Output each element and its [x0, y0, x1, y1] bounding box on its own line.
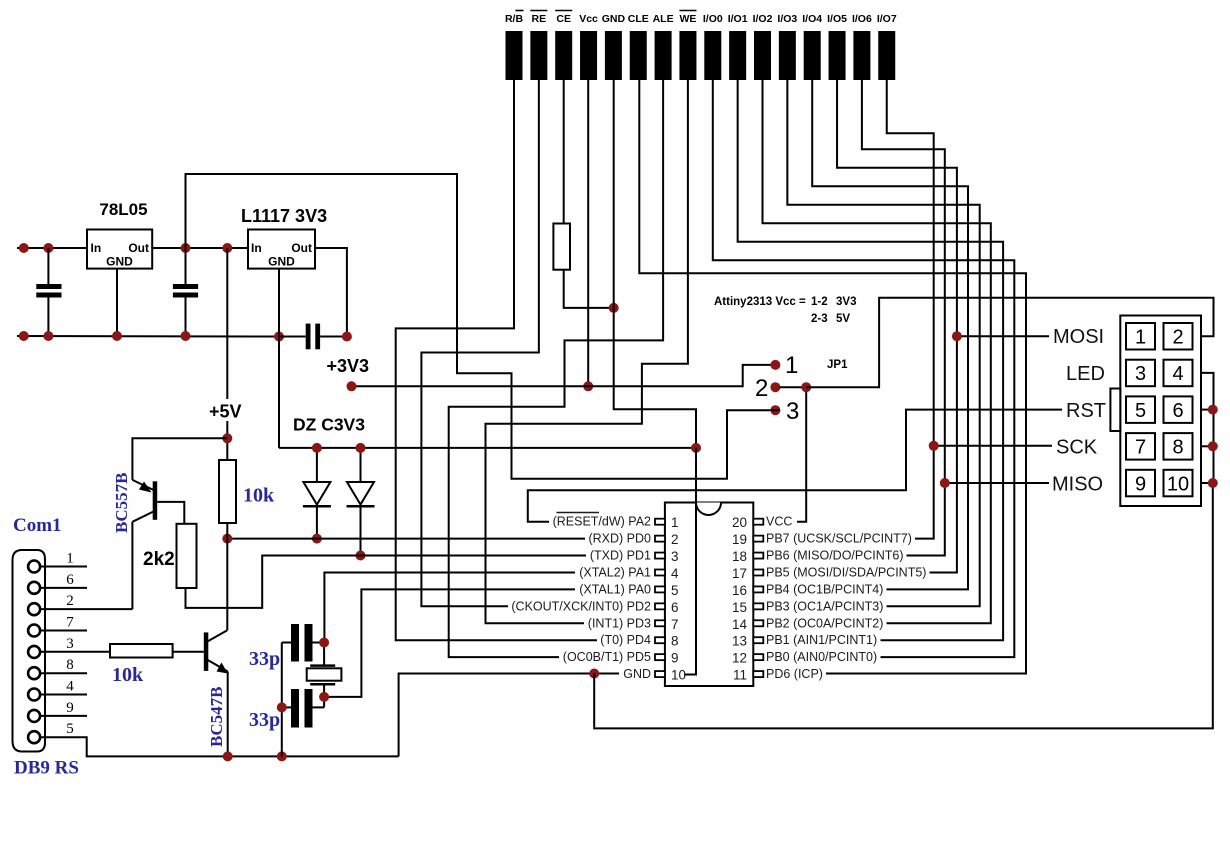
- svg-text:GND: GND: [602, 13, 626, 25]
- resistor R5 10k serial: [110, 644, 173, 658]
- junction dot rail crystal: [277, 751, 287, 761]
- svg-text:13: 13: [732, 634, 747, 649]
- svg-text:16: 16: [732, 583, 747, 598]
- svg-text:5: 5: [1135, 400, 1146, 422]
- svg-text:JP1: JP1: [827, 359, 848, 371]
- svg-text:GND: GND: [106, 255, 133, 269]
- DB9 pin 4 hole: [28, 689, 40, 701]
- svg-text:I/O6: I/O6: [852, 13, 872, 25]
- svg-text:PB3 (OC1A/PCINT3): PB3 (OC1A/PCINT3): [766, 599, 883, 613]
- svg-text:7: 7: [66, 615, 74, 631]
- ISP header cell 10: [1164, 470, 1193, 497]
- svg-text:2-3: 2-3: [811, 313, 828, 325]
- wire WE to PD3: [486, 80, 688, 623]
- svg-text:2: 2: [66, 593, 74, 609]
- svg-text:(XTAL2) PA1: (XTAL2) PA1: [579, 565, 651, 579]
- svg-text:In: In: [91, 241, 102, 255]
- resistor R3 2k2: [177, 524, 197, 588]
- svg-text:I/O3: I/O3: [777, 13, 797, 25]
- svg-text:Out: Out: [291, 241, 312, 255]
- IC pin 20 stub and label: [732, 515, 792, 531]
- wire rail to capacitor C3: [279, 336, 306, 338]
- junction dot rail C2: [181, 331, 191, 341]
- junction dot RXD 10k: [222, 534, 232, 544]
- connector pin I/O5: [827, 13, 847, 80]
- transistor Q2 BC547B: [204, 539, 228, 757]
- svg-text:PB0 (AIN0/PCINT0): PB0 (AIN0/PCINT0): [766, 650, 877, 664]
- svg-text:I/O4: I/O4: [802, 13, 822, 25]
- svg-text:6: 6: [66, 572, 74, 588]
- svg-text:I/O2: I/O2: [753, 13, 773, 25]
- wire L1117 Out to +3V3 node: [315, 248, 347, 337]
- junction dot D1 top: [312, 443, 322, 453]
- svg-text:1: 1: [785, 352, 798, 379]
- wire SCK row: [934, 445, 1052, 447]
- IC pin 4 stub and label: [579, 565, 679, 581]
- svg-text:9: 9: [1135, 473, 1146, 495]
- DB9 pin 7 stub: [40, 630, 87, 632]
- svg-text:33p: 33p: [249, 648, 280, 670]
- wire CLE to PD6: [639, 80, 1026, 674]
- JP1 pin3 dot: [770, 405, 780, 415]
- DB9 pin 8 stub: [40, 672, 87, 674]
- svg-text:14: 14: [732, 617, 748, 632]
- DB9 pin 4 stub: [40, 694, 87, 696]
- junction dot MOSI: [952, 331, 962, 341]
- svg-text:4: 4: [1172, 363, 1183, 385]
- junction dot +3V3 feed: [347, 381, 357, 391]
- svg-text:7: 7: [671, 617, 679, 632]
- svg-text:PB1 (AIN1/PCINT1): PB1 (AIN1/PCINT1): [766, 633, 877, 647]
- junction dot SCK: [929, 441, 939, 451]
- ISP header cell 1: [1126, 323, 1155, 350]
- svg-text:I/O0: I/O0: [703, 13, 723, 25]
- wire ground bus horizontal: [279, 447, 696, 449]
- connector JP2 ISP header outer: [1120, 316, 1201, 507]
- IC pin 3 stub and label: [590, 549, 679, 565]
- svg-text:5: 5: [66, 721, 74, 737]
- svg-text:Attiny2313 Vcc =: Attiny2313 Vcc =: [714, 296, 806, 308]
- wire VCC to ISP header pin2: [806, 298, 1213, 387]
- junction dot 5V node A: [181, 243, 191, 253]
- wire I/O2 to PB2: [763, 80, 991, 623]
- svg-text:2: 2: [755, 375, 768, 402]
- wire DB9 pin5 to ground rail: [40, 737, 399, 756]
- DB9 pin 6 stub: [40, 587, 87, 589]
- capacitor C4 33p top: [282, 624, 324, 662]
- DB9 pin 1 hole: [28, 561, 40, 573]
- junction dot MISO: [940, 478, 950, 488]
- svg-text:8: 8: [671, 634, 679, 649]
- svg-text:3: 3: [786, 398, 799, 425]
- junction dot rail L1117 GND: [274, 332, 284, 342]
- svg-text:RE: RE: [532, 13, 547, 25]
- svg-text:Vcc: Vcc: [579, 13, 598, 25]
- svg-text:MOSI: MOSI: [1053, 326, 1104, 348]
- junction dot input cap C1: [43, 243, 53, 253]
- regulator U3 L1117 3V3: [248, 230, 315, 269]
- svg-text:+3V3: +3V3: [327, 356, 370, 376]
- regulator U2 78L05: [87, 230, 152, 269]
- wire header pin10: [1201, 482, 1214, 484]
- IC pin 13 stub and label: [732, 633, 877, 649]
- wire GND bar to IC ground node: [614, 80, 696, 448]
- svg-text:PB2 (OC0A/PCINT2): PB2 (OC0A/PCINT2): [766, 616, 883, 630]
- svg-text:I/O5: I/O5: [827, 13, 847, 25]
- svg-text:LED: LED: [1066, 363, 1105, 385]
- zener diode D1 C3V3: [303, 448, 331, 539]
- junction dot ground-IC 4way: [691, 443, 701, 453]
- wire header pin6: [1201, 409, 1214, 411]
- connector pin I/O1: [728, 13, 748, 80]
- connector pin I/O7: [877, 13, 897, 80]
- wire I/O3 to PB3: [787, 80, 979, 606]
- DB9 pin 1 stub: [40, 566, 87, 568]
- svg-text:1: 1: [671, 515, 679, 530]
- svg-text:PB6 (MISO/DO/PCINT6): PB6 (MISO/DO/PCINT6): [766, 549, 904, 563]
- wire XTAL2 row: [324, 573, 575, 643]
- svg-text:CLE: CLE: [628, 13, 649, 25]
- wire I/O7 to PB7: [887, 80, 934, 539]
- IC pin 16 stub and label: [732, 582, 883, 598]
- connector pin R/B: [505, 11, 524, 81]
- junction dot input left: [19, 243, 29, 253]
- svg-text:3: 3: [671, 549, 679, 564]
- connector pin Vcc: [579, 13, 598, 80]
- svg-text:4: 4: [671, 566, 679, 581]
- DB9 pin 7 hole: [28, 625, 40, 637]
- svg-text:2k2: 2k2: [143, 549, 175, 570]
- IC pin 19 stub and label: [732, 532, 912, 548]
- junction dot 5V node B: [222, 243, 232, 253]
- wire +5V branch down 2: [226, 421, 228, 438]
- connector pin I/O4: [802, 13, 822, 80]
- IC pin 5 stub and label: [579, 582, 678, 598]
- junction dot XTAL2 node: [319, 638, 329, 648]
- svg-text:(RXD) PD0: (RXD) PD0: [588, 532, 651, 546]
- svg-text:1-2: 1-2: [811, 296, 828, 308]
- svg-text:(CKOUT/XCK/INT0) PD2: (CKOUT/XCK/INT0) PD2: [511, 599, 651, 613]
- IC pin 11 stub and label: [733, 667, 823, 683]
- svg-text:BC547B: BC547B: [207, 687, 226, 747]
- svg-text:17: 17: [732, 566, 747, 581]
- svg-text:10k: 10k: [243, 485, 275, 507]
- wire Vcc bar to +3V3 net: [587, 80, 589, 386]
- junction dot rail left end: [19, 331, 29, 341]
- wire header pin4 to ground bus: [1201, 373, 1214, 483]
- wire L1117 GND down to ground bus: [278, 269, 280, 448]
- svg-text:MISO: MISO: [1052, 474, 1103, 496]
- wire RESET to RST: [528, 410, 1062, 522]
- wire TXD row to 2k2: [186, 556, 587, 608]
- svg-text:2: 2: [1172, 327, 1183, 349]
- wire I/O1 to PB1: [738, 80, 1003, 640]
- capacitor C3 3V3 filter: [306, 324, 320, 350]
- svg-text:CE: CE: [556, 13, 571, 25]
- svg-text:20: 20: [732, 515, 747, 530]
- wire ALE to PD5: [449, 80, 663, 657]
- DB9 pin 6 hole: [28, 582, 40, 594]
- svg-text:3: 3: [1135, 363, 1146, 385]
- svg-text:SCK: SCK: [1056, 437, 1098, 459]
- DB9 pin 3 hole: [28, 646, 40, 658]
- IC U1 ATtiny2313 body: [665, 503, 753, 687]
- JP1 pin1 dot: [770, 360, 780, 370]
- wire I/O5 to PB5: [837, 80, 957, 573]
- wire R5 to Q2 base: [173, 651, 204, 653]
- svg-text:7: 7: [1135, 437, 1146, 459]
- svg-text:78L05: 78L05: [99, 200, 147, 219]
- wire header pin8: [1201, 445, 1214, 447]
- ISP header cell 2: [1164, 323, 1193, 350]
- ISP header cell 3: [1126, 360, 1155, 387]
- svg-text:9: 9: [66, 700, 74, 716]
- zener diode D2 C3V3: [347, 448, 375, 556]
- junction dot D1 bottom: [312, 534, 322, 544]
- svg-text:DB9 RS: DB9 RS: [14, 758, 79, 779]
- ground rail left: [17, 335, 279, 338]
- svg-text:Out: Out: [128, 241, 149, 255]
- IC pin 2 stub and label: [588, 532, 678, 548]
- wire +5V top run to JP1 pin3 net: [186, 174, 772, 479]
- svg-text:BC557B: BC557B: [112, 473, 131, 533]
- svg-text:(OC0B/T1) PD5: (OC0B/T1) PD5: [563, 650, 651, 664]
- wire caps ground rail: [281, 643, 283, 757]
- svg-text:33p: 33p: [249, 709, 280, 731]
- svg-text:1: 1: [66, 551, 74, 567]
- wire DB9 pin3 to R5: [40, 651, 110, 653]
- svg-text:RST: RST: [1066, 400, 1106, 422]
- svg-text:GND: GND: [268, 255, 295, 269]
- ISP header cell 5: [1126, 396, 1155, 423]
- junction dot +3V3 node: [342, 332, 352, 342]
- junction dot header pin6: [1208, 405, 1218, 415]
- junction dot rail Q2 emitter: [223, 751, 233, 761]
- DB9 pin 5 hole: [28, 731, 40, 743]
- svg-text:18: 18: [732, 549, 747, 564]
- svg-text:GND: GND: [623, 667, 651, 681]
- IC pin 1 stub and label: [553, 515, 679, 531]
- svg-text:5: 5: [671, 583, 679, 598]
- svg-text:9: 9: [671, 651, 679, 666]
- resistor R4 CE pull-down: [553, 224, 570, 270]
- IC pin 15 stub and label: [732, 599, 883, 615]
- svg-text:I/O1: I/O1: [728, 13, 748, 25]
- junction dot D2 bottom: [356, 551, 366, 561]
- capacitor C1 input: [36, 248, 61, 336]
- overline RESET: [557, 512, 600, 514]
- svg-text:6: 6: [1172, 400, 1183, 422]
- wire input to 78L05 In: [17, 247, 87, 249]
- svg-text:3: 3: [66, 636, 74, 652]
- svg-text:10: 10: [671, 668, 686, 683]
- label +5V: [208, 402, 241, 421]
- ISP header cell 8: [1164, 433, 1193, 460]
- DB9 pin 9 stub: [40, 715, 87, 717]
- svg-text:(RESET/dW) PA2: (RESET/dW) PA2: [553, 515, 651, 529]
- wire R/B to PD4: [396, 80, 597, 640]
- connector pin I/O6: [852, 13, 872, 80]
- wire JP1 pin3 stub: [771, 409, 780, 411]
- ISP header cell 4: [1164, 360, 1193, 387]
- svg-text:I/O7: I/O7: [877, 13, 897, 25]
- ISP header cell 9: [1126, 470, 1155, 497]
- svg-text:4: 4: [66, 679, 74, 695]
- wire JP1 pin2 to VCC and header pin2: [780, 387, 807, 522]
- wire RE to PD2: [421, 80, 538, 606]
- wire 78L05 Out to L1117 In: [152, 247, 248, 249]
- wire GND pin10 to rail and bus: [399, 674, 619, 757]
- svg-text:PB7 (UCSK/SCL/PCINT7): PB7 (UCSK/SCL/PCINT7): [766, 532, 912, 546]
- junction dot +5V emitter: [222, 433, 232, 443]
- svg-text:In: In: [251, 241, 262, 255]
- DB9 pin 2 hole: [28, 603, 40, 615]
- capacitor C5 33p bottom: [282, 689, 324, 728]
- junction dot CE-GND: [609, 303, 619, 313]
- wire I/O0 to PB0: [713, 80, 1015, 657]
- svg-text:6: 6: [671, 600, 679, 615]
- connector pin ALE: [653, 13, 674, 80]
- svg-text:ALE: ALE: [653, 13, 674, 25]
- svg-text:2: 2: [671, 532, 679, 547]
- connector pin I/O2: [753, 13, 773, 80]
- svg-text:8: 8: [66, 657, 74, 673]
- svg-text:11: 11: [733, 668, 747, 683]
- connector pin RE: [530, 11, 547, 81]
- svg-text:L1117 3V3: L1117 3V3: [241, 206, 327, 226]
- DB9 pin 9 hole: [28, 710, 40, 722]
- IC pin 14 stub and label: [732, 616, 883, 632]
- JP1 pin2 dot: [770, 382, 780, 392]
- connector pin GND: [602, 13, 626, 80]
- svg-text:PD6 (ICP): PD6 (ICP): [766, 667, 823, 681]
- svg-text:(T0) PD4: (T0) PD4: [600, 633, 651, 647]
- connector pin CLE: [628, 13, 649, 80]
- svg-text:10k: 10k: [112, 664, 144, 686]
- IC pin 8 stub and label: [600, 633, 678, 649]
- svg-text:Com1: Com1: [13, 515, 62, 536]
- svg-text:12: 12: [732, 651, 747, 666]
- wire I/O4 to PB4: [812, 80, 968, 589]
- svg-text:PB4 (OC1B/PCINT4): PB4 (OC1B/PCINT4): [766, 582, 883, 596]
- junction dot header pin8: [1208, 441, 1218, 451]
- IC pin 18 stub and label: [732, 549, 904, 565]
- svg-text:(TXD) PD1: (TXD) PD1: [590, 549, 651, 563]
- wire 78L05 GND to rail: [116, 269, 118, 336]
- resistor R2 10k pull-up: [219, 438, 236, 538]
- wire C3 to +3V3 node: [320, 336, 347, 338]
- IC pin 9 stub and label: [563, 650, 679, 666]
- wire MOSI row: [957, 335, 1049, 337]
- ISP header cell 6: [1164, 396, 1193, 423]
- svg-text:(INT1) PD3: (INT1) PD3: [588, 616, 651, 630]
- wire CE upper: [563, 80, 565, 224]
- connector pin I/O0: [703, 13, 723, 80]
- junction dot rail C1: [43, 331, 53, 341]
- IC pin 6 stub and label: [511, 599, 678, 615]
- svg-text:3V3: 3V3: [836, 296, 856, 308]
- junction dot XTAL1 node: [319, 692, 329, 702]
- svg-text:DZ C3V3: DZ C3V3: [293, 415, 365, 435]
- svg-text:1: 1: [1135, 327, 1146, 349]
- svg-text:R/B: R/B: [505, 13, 524, 25]
- ISP header key tab: [1110, 389, 1120, 432]
- svg-text:19: 19: [732, 532, 747, 547]
- IC pin 17 stub and label: [732, 565, 926, 581]
- svg-text:+5V: +5V: [209, 402, 242, 422]
- junction dot caps mid: [277, 702, 287, 712]
- svg-text:VCC: VCC: [766, 515, 792, 529]
- svg-text:15: 15: [732, 600, 747, 615]
- junction dot GND pin10: [589, 669, 599, 679]
- wire DB9 pin2 to Q1 collector: [40, 608, 132, 610]
- svg-text:WE: WE: [679, 13, 696, 25]
- wire +5V branch down: [226, 248, 228, 399]
- wire RXD row: [227, 538, 585, 540]
- svg-text:(XTAL1) PA0: (XTAL1) PA0: [579, 582, 651, 596]
- wire CE resistor to GND line: [564, 270, 614, 308]
- junction dot Vcc-3V3: [583, 381, 593, 391]
- wire MISO row: [945, 482, 1049, 484]
- wire I/O6 to PB6: [862, 80, 945, 556]
- wire IC internal ground to pin10: [684, 448, 696, 675]
- connector pin WE: [679, 11, 696, 81]
- DB9 pin 8 hole: [28, 667, 40, 679]
- connector pin CE: [555, 11, 572, 81]
- svg-text:PB5 (MOSI/DI/SDA/PCINT5): PB5 (MOSI/DI/SDA/PCINT5): [766, 565, 926, 579]
- wire XTAL1 row: [324, 589, 575, 697]
- crystal X1: [307, 643, 342, 708]
- junction dot D2 top: [356, 443, 366, 453]
- IC pin 12 stub and label: [732, 650, 877, 666]
- capacitor C2 5V filter: [173, 248, 198, 336]
- transistor Q1 BC557B: [132, 438, 227, 609]
- svg-text:8: 8: [1172, 437, 1183, 459]
- IC pin 10 stub and label: [623, 667, 686, 683]
- connector pin I/O3: [777, 13, 797, 80]
- wire +3V3 distribution to JP1 pin1: [352, 365, 772, 386]
- junction dot JP1 pin2 branch: [801, 382, 811, 392]
- IC pin 7 stub and label: [588, 616, 679, 632]
- junction dot header pin10: [1208, 478, 1218, 488]
- wire GND bus to header: [594, 483, 1213, 728]
- svg-text:5V: 5V: [836, 313, 850, 325]
- ISP header cell 7: [1126, 433, 1155, 460]
- connector J1 DB9 shell: [13, 550, 46, 752]
- svg-text:10: 10: [1167, 473, 1189, 495]
- junction dot rail 78L05 GND: [112, 331, 122, 341]
